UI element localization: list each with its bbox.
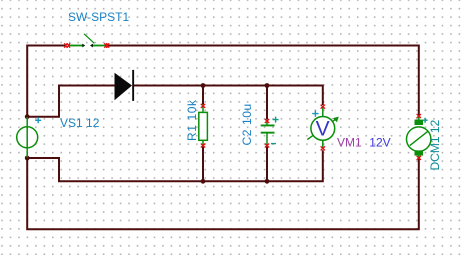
svg-text:12V: 12V [369,136,390,150]
svg-text:DCM1 12: DCM1 12 [428,119,442,170]
svg-text:VM1: VM1 [337,136,362,150]
svg-text:R1 10k: R1 10k [185,99,199,141]
svg-text:C2 10u: C2 10u [240,103,254,145]
svg-text:VS1 12: VS1 12 [60,116,100,130]
svg-text:SW-SPST1: SW-SPST1 [68,10,129,24]
svg-text:V: V [316,118,330,141]
